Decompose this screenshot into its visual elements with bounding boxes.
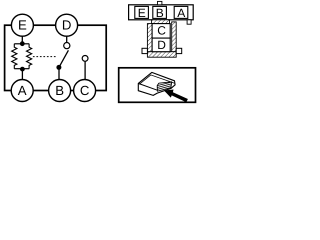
contact: open circle above C — [82, 56, 88, 62]
svg-text:D: D — [157, 38, 166, 52]
bracket bottom strip (hatched) — [147, 52, 176, 58]
pin box C — [152, 24, 170, 38]
connector top tab — [158, 1, 162, 4]
svg-text:C: C — [157, 23, 166, 37]
bracket left foot — [142, 48, 147, 53]
bracket neck (hatched cross-section) — [152, 20, 170, 24]
contact: open circle under D — [64, 43, 70, 49]
bracket right wall (hatched) — [172, 22, 177, 52]
wire: contact down to terminal C — [84, 61, 86, 80]
node: junction dot above coil — [20, 41, 25, 46]
wire: pivot down to terminal B — [58, 67, 60, 80]
wire: top bar of parallel branch — [14, 43, 29, 45]
wire: dashed mechanical link from coil to switch arm — [33, 56, 58, 58]
terminal C — [74, 80, 96, 102]
connector body outline (terminal layout, top view) — [129, 5, 194, 20]
wire: bottom bar of parallel branch — [14, 68, 29, 70]
relay body (isometric) — [138, 72, 175, 95]
wire: node down to terminal A — [21, 69, 23, 80]
svg-text:B: B — [156, 6, 164, 20]
svg-text:B: B — [55, 83, 64, 98]
svg-text:E: E — [138, 6, 146, 20]
svg-text:D: D — [62, 18, 72, 33]
connector bottom-right tab — [187, 20, 191, 24]
wire: stub from E down to coil top node — [21, 36, 23, 44]
pin box E — [135, 6, 149, 18]
terminal A — [11, 80, 33, 102]
bracket right foot — [176, 48, 182, 53]
svg-text:A: A — [177, 6, 185, 20]
switch arm SW1 — [59, 50, 69, 67]
pin box A — [174, 6, 188, 18]
terminal B — [49, 80, 71, 102]
node: switch pivot dot — [56, 65, 61, 70]
pin box B — [153, 6, 167, 18]
relay connector socket — [157, 82, 172, 91]
terminal D — [56, 14, 78, 36]
svg-text:A: A — [18, 83, 27, 98]
inset box frame — [119, 68, 196, 103]
terminal E — [11, 14, 33, 36]
wire: stub from D down to contact — [66, 36, 68, 43]
node: junction dot below coil — [20, 67, 25, 72]
pointer arrow — [164, 90, 188, 103]
connector slot 2 — [157, 86, 171, 90]
connector top edge — [157, 82, 171, 86]
relay front-top edge — [138, 83, 157, 90]
resistor R (left zigzag of parallel pair) — [12, 44, 17, 69]
svg-text:C: C — [80, 83, 90, 98]
pin box D — [152, 38, 170, 52]
connector slot 1 — [157, 84, 171, 88]
svg-text:E: E — [18, 18, 27, 33]
bracket left wall (hatched) — [147, 24, 152, 52]
wire: circuit outer loop rectangle — [5, 25, 107, 90]
relay cover seam — [139, 75, 174, 84]
coil L1 (right zigzag of parallel pair) — [27, 44, 32, 69]
